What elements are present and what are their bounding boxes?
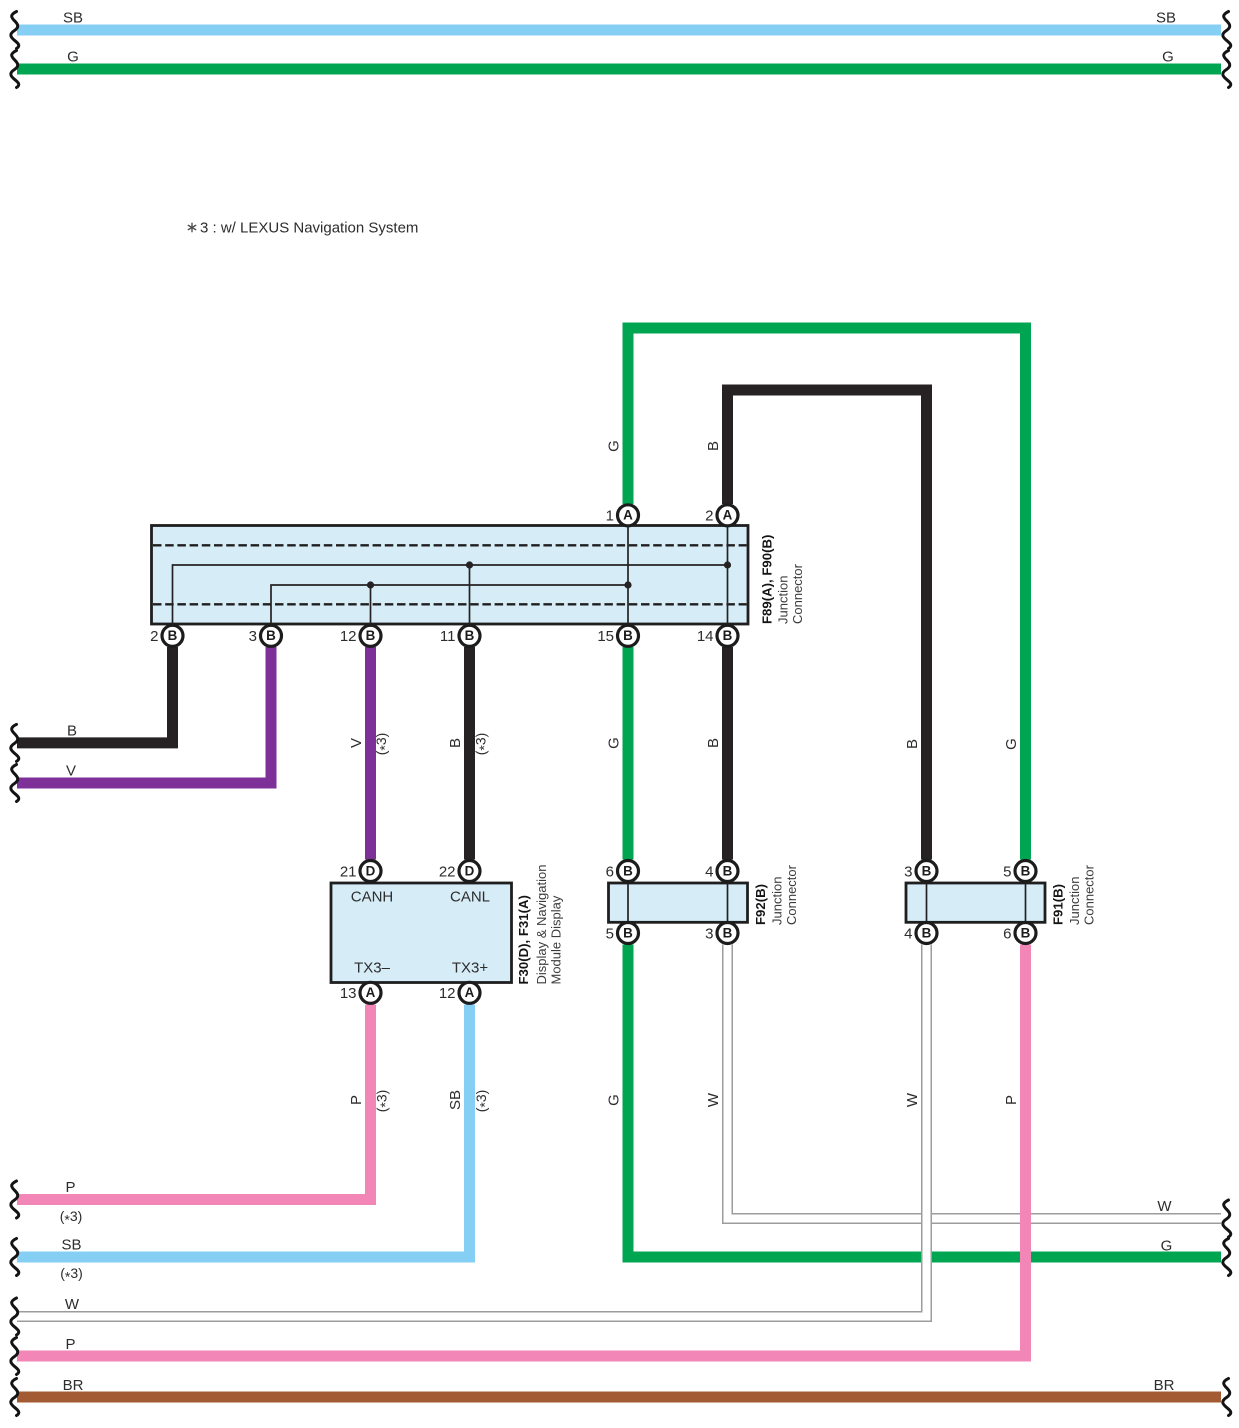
wire G upper loop (1A to F91 5B) <box>628 328 1026 860</box>
break symbol G top right <box>1223 51 1231 88</box>
wire P from F91 pin 6B down-left to edge <box>17 945 1026 1357</box>
break symbol SB top left <box>11 12 19 49</box>
svg-text:15: 15 <box>597 628 614 645</box>
break symbol BR left <box>11 1379 19 1416</box>
svg-text:Junction: Junction <box>1067 877 1082 925</box>
svg-text:G: G <box>606 440 623 452</box>
svg-text:CANH: CANH <box>351 889 394 906</box>
terminal 6B top of F92 <box>618 861 639 882</box>
svg-text:D: D <box>465 863 475 878</box>
svg-text:F91(B): F91(B) <box>1051 884 1066 925</box>
svg-text:B: B <box>922 863 932 878</box>
svg-text:B: B <box>447 738 464 748</box>
svg-text:G: G <box>1162 49 1174 66</box>
wire W from F92 pin 3B down-right to edge <box>728 945 1222 1219</box>
terminal 11B bottom of F89 <box>459 625 480 646</box>
svg-text:4: 4 <box>705 863 713 880</box>
svg-text:Junction: Junction <box>776 576 791 624</box>
svg-text:B: B <box>623 628 633 643</box>
svg-text:3: 3 <box>249 628 257 645</box>
wire W from F91 pin 4B down-left to edge <box>17 945 927 1317</box>
svg-text:SB: SB <box>1156 10 1176 27</box>
svg-text:TX3+: TX3+ <box>452 960 489 977</box>
bus line 1 inside F89 <box>173 565 728 623</box>
svg-text:1: 1 <box>606 508 614 525</box>
svg-text:B: B <box>465 628 475 643</box>
internal lead pin 12B <box>370 585 372 623</box>
terminal 3B bottom of F92 <box>717 923 738 944</box>
terminal 2A top of F89 <box>717 505 738 526</box>
terminal 2B bottom of F89 <box>162 625 183 646</box>
svg-text:3 : w/ LEXUS Navigation System: 3 : w/ LEXUS Navigation System <box>200 220 418 237</box>
svg-text:B: B <box>723 925 733 940</box>
svg-text:TX3–: TX3– <box>354 960 391 977</box>
svg-text:BR: BR <box>1154 1377 1175 1394</box>
break symbol G top left <box>11 51 19 88</box>
svg-text:3: 3 <box>904 863 912 880</box>
junction connector F92(B) box <box>609 883 748 922</box>
terminal 12B bottom of F89 <box>360 625 381 646</box>
wire G from F92 pin 5B down-right to edge <box>628 945 1221 1258</box>
internal lead F91 left <box>926 884 928 922</box>
svg-text:6: 6 <box>606 863 614 880</box>
svg-text:V: V <box>348 738 365 748</box>
dashed line upper inside F89 <box>153 544 747 546</box>
svg-text:G: G <box>1003 738 1020 750</box>
terminal 15B bottom of F89 <box>618 625 639 646</box>
internal lead F92 left <box>627 884 629 922</box>
junction dot 15B bus2 <box>624 581 631 588</box>
terminal 21D of display <box>360 861 381 882</box>
svg-text:A: A <box>623 508 633 523</box>
svg-text:Connector: Connector <box>784 864 799 925</box>
junction dot 14B bus1 <box>724 561 731 568</box>
terminal 6B bottom of F91 <box>1015 923 1036 944</box>
svg-text:B: B <box>623 863 633 878</box>
svg-text:11: 11 <box>440 628 456 645</box>
break symbol P left lower <box>11 1338 19 1375</box>
svg-text:B: B <box>366 628 376 643</box>
svg-text:Connector: Connector <box>790 563 805 624</box>
wire BR bottom horizontal <box>17 1392 1221 1403</box>
svg-text:F89(A), F90(B): F89(A), F90(B) <box>760 535 775 624</box>
svg-text:B: B <box>1021 925 1031 940</box>
svg-text:5: 5 <box>606 925 614 942</box>
wire V from F89 pin 12B to display pin 21D <box>365 647 376 860</box>
svg-text:5: 5 <box>1003 863 1011 880</box>
svg-text:4: 4 <box>904 925 912 942</box>
break symbol SB top right <box>1223 12 1231 49</box>
wire P from display pin 13A down-left to edge <box>17 1005 371 1200</box>
svg-text:P: P <box>65 1179 75 1196</box>
terminal 5B bottom of F92 <box>618 923 639 944</box>
wire SB from display pin 12A down-left to edge <box>17 1005 470 1258</box>
svg-text:B: B <box>922 925 932 940</box>
svg-text:3: 3 <box>705 925 713 942</box>
break symbol G right lower <box>1223 1239 1231 1276</box>
break symbol W right <box>1223 1200 1231 1237</box>
svg-text:14: 14 <box>697 628 714 645</box>
svg-text:13: 13 <box>340 985 357 1002</box>
svg-text:W: W <box>705 1092 722 1107</box>
terminal 14B bottom of F89 <box>717 625 738 646</box>
svg-text:G: G <box>67 49 79 66</box>
svg-text:CANL: CANL <box>450 889 490 906</box>
internal lead pin 11B <box>469 565 471 623</box>
svg-text:G: G <box>1161 1238 1173 1255</box>
break symbol W left <box>11 1298 19 1335</box>
svg-text:P: P <box>348 1095 365 1105</box>
svg-text:B: B <box>67 723 77 740</box>
internal lead 2A-14B <box>727 527 729 623</box>
wire B from F89 pin 11B to display pin 22D <box>464 647 475 860</box>
wire B from F89 pin 14B to F92 pin 4B <box>722 647 733 860</box>
junction dot 11B bus1 <box>466 561 473 568</box>
svg-text:SB: SB <box>63 10 83 27</box>
svg-text:V: V <box>66 763 76 780</box>
svg-text:D: D <box>366 863 376 878</box>
svg-text:A: A <box>366 985 376 1000</box>
svg-text:SB: SB <box>61 1237 81 1254</box>
internal lead F92 right <box>727 884 729 922</box>
svg-text:G: G <box>606 1094 623 1106</box>
bus line 2 inside F89 <box>271 585 628 623</box>
svg-text:B: B <box>723 628 733 643</box>
junction dot 12B bus2 <box>367 581 374 588</box>
dashed line lower inside F89 <box>153 603 747 605</box>
break symbol SB left <box>11 1239 19 1276</box>
break symbol P left <box>11 1181 19 1218</box>
svg-text:W: W <box>65 1296 80 1313</box>
terminal 22D of display <box>459 861 480 882</box>
terminal 3B top of F91 <box>916 861 937 882</box>
svg-text:B: B <box>904 739 921 749</box>
svg-text:B: B <box>168 628 178 643</box>
svg-text:F30(D), F31(A): F30(D), F31(A) <box>516 895 531 984</box>
svg-text:22: 22 <box>439 863 456 880</box>
svg-text:12: 12 <box>439 985 456 1002</box>
internal lead 1A-15B <box>627 527 629 623</box>
wire SB top horizontal <box>17 25 1221 36</box>
svg-text:A: A <box>723 508 733 523</box>
wire B from F89 pin 2B down-left to edge <box>17 647 173 743</box>
svg-text:Display & Navigation: Display & Navigation <box>534 865 549 985</box>
wire V from F89 pin 3B down-left to edge <box>17 647 271 783</box>
svg-text:2: 2 <box>150 628 158 645</box>
wire G top horizontal <box>17 64 1221 75</box>
terminal 5B top of F91 <box>1015 861 1036 882</box>
wire B upper loop (2A to F91 3B) <box>728 390 927 860</box>
svg-text:BR: BR <box>63 1377 84 1394</box>
wire G from F89 pin 15B through F92 to right edge <box>623 647 634 860</box>
break symbol V left <box>11 765 19 802</box>
svg-text:Connector: Connector <box>1082 864 1097 925</box>
svg-text:W: W <box>1157 1198 1172 1215</box>
svg-text:Junction: Junction <box>770 877 785 925</box>
svg-text:SB: SB <box>447 1090 464 1110</box>
svg-text:Module Display: Module Display <box>549 895 564 984</box>
svg-text:F92(B): F92(B) <box>753 884 768 925</box>
svg-text:P: P <box>1003 1095 1020 1105</box>
svg-text:21: 21 <box>340 863 357 880</box>
svg-text:P: P <box>65 1336 75 1353</box>
svg-text:B: B <box>623 925 633 940</box>
svg-text:A: A <box>465 985 475 1000</box>
svg-text:B: B <box>723 863 733 878</box>
terminal 13A of display <box>360 982 381 1003</box>
terminal 12A of display <box>459 982 480 1003</box>
svg-text:12: 12 <box>340 628 357 645</box>
junction connector F89(A),F90(B) box <box>152 526 749 625</box>
svg-text:G: G <box>606 737 623 749</box>
terminal 4B bottom of F91 <box>916 923 937 944</box>
break symbol BR right <box>1223 1379 1231 1416</box>
junction connector F91(B) box <box>906 883 1045 922</box>
svg-text:6: 6 <box>1003 925 1011 942</box>
terminal 3B bottom of F89 <box>261 625 282 646</box>
svg-text:B: B <box>705 441 722 451</box>
svg-text:2: 2 <box>705 508 713 525</box>
note: *3 w/ LEXUS Navigation System <box>188 220 418 237</box>
terminal 1A top of F89 <box>618 505 639 526</box>
display module F30(D),F31(A) box <box>331 883 512 983</box>
svg-text:B: B <box>1021 863 1031 878</box>
internal lead F91 right <box>1025 884 1027 922</box>
svg-text:B: B <box>705 738 722 748</box>
terminal 4B top of F92 <box>717 861 738 882</box>
svg-text:W: W <box>904 1092 921 1107</box>
break symbol B left <box>11 724 19 761</box>
svg-text:B: B <box>266 628 276 643</box>
